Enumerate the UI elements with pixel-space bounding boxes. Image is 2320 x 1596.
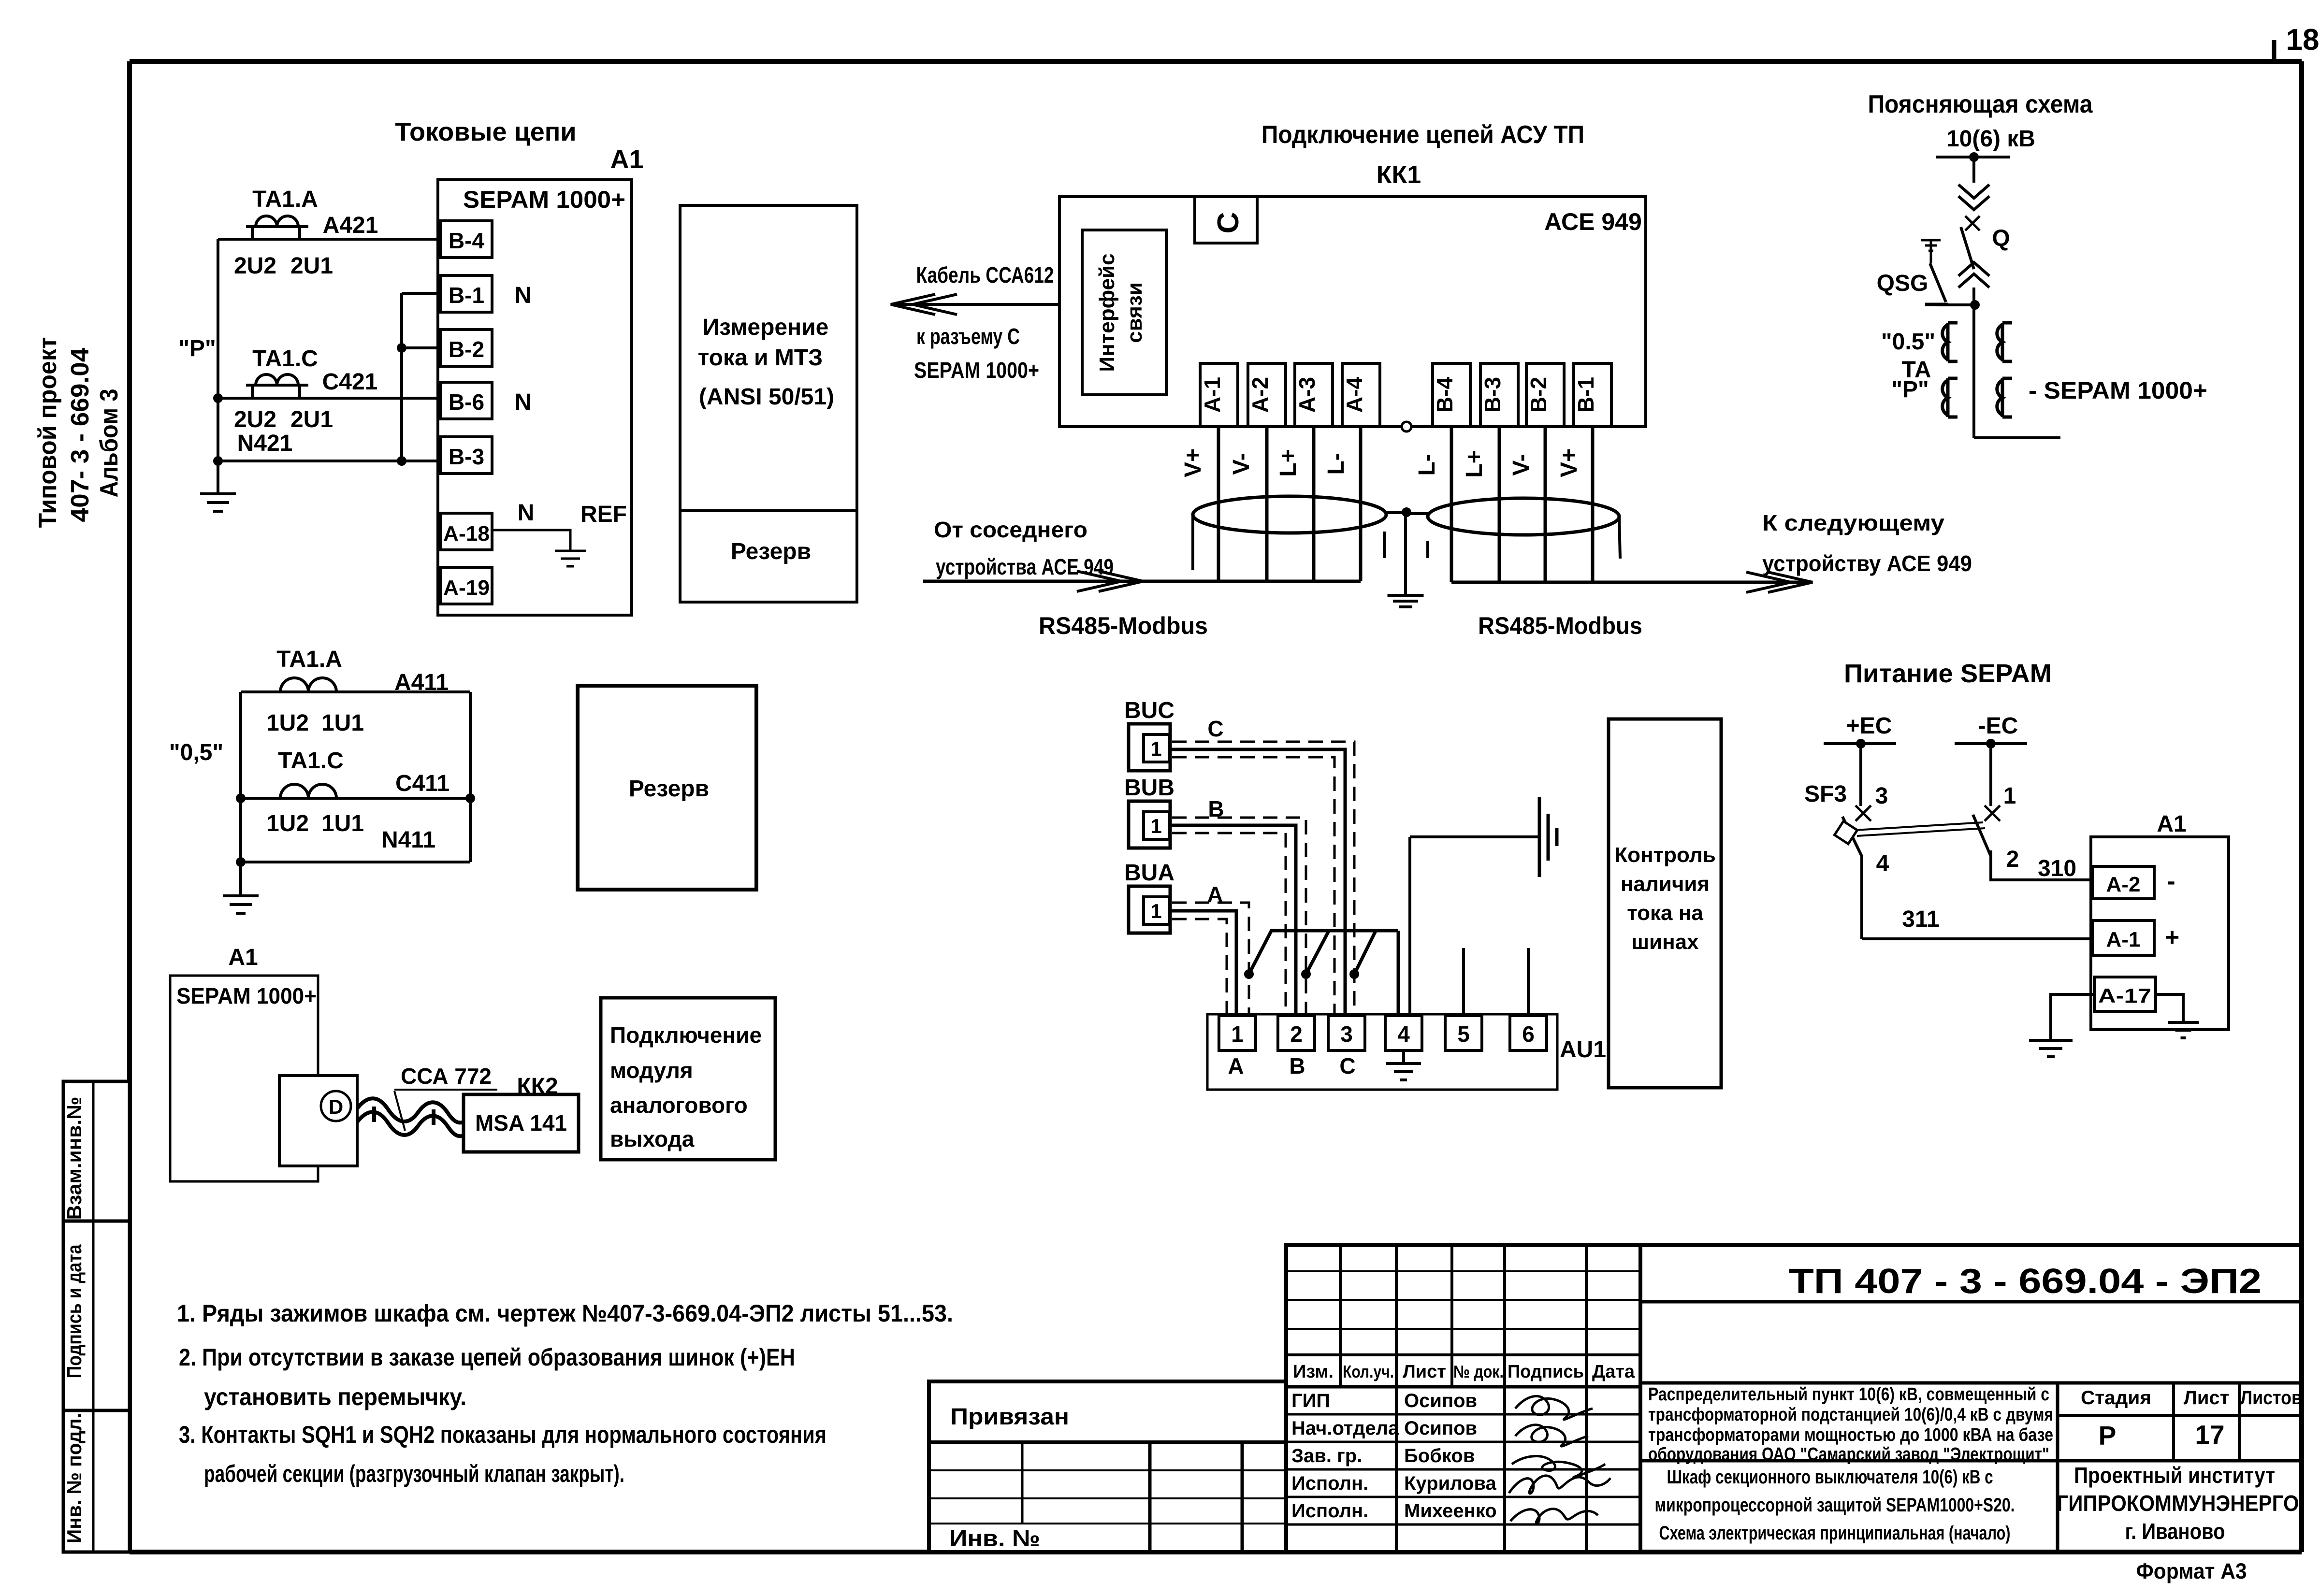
svg-text:V-: V- xyxy=(1508,454,1534,475)
svg-text:Привязан: Привязан xyxy=(950,1404,1069,1430)
svg-text:Подпись и дата: Подпись и дата xyxy=(63,1244,86,1379)
svg-text:(ANSI 50/51): (ANSI 50/51) xyxy=(699,384,834,410)
svg-text:1U1: 1U1 xyxy=(321,710,364,736)
svg-text:MSA 141: MSA 141 xyxy=(475,1110,567,1136)
svg-text:1: 1 xyxy=(2003,783,2016,809)
svg-text:4: 4 xyxy=(1397,1021,1410,1047)
svg-text:Подпись: Подпись xyxy=(1508,1362,1584,1382)
svg-text:устройства АСЕ 949: устройства АСЕ 949 xyxy=(936,554,1114,579)
svg-text:установить перемычку.: установить перемычку. xyxy=(204,1383,466,1410)
svg-text:2U2: 2U2 xyxy=(234,407,276,432)
svg-text:Осипов: Осипов xyxy=(1404,1390,1477,1411)
svg-text:3: 3 xyxy=(1875,783,1888,809)
svg-text:Изм.: Изм. xyxy=(1293,1362,1334,1382)
svg-text:С: С xyxy=(1207,716,1223,741)
svg-text:А-2: А-2 xyxy=(1247,377,1273,413)
svg-text:-ЕС: -ЕС xyxy=(1978,713,2018,739)
svg-text:AU1: AU1 xyxy=(1560,1037,1606,1063)
svg-text:В-4: В-4 xyxy=(1432,377,1457,413)
svg-text:Шкаф секционного выключателя 1: Шкаф секционного выключателя 10(6) кВ с xyxy=(1667,1467,1993,1488)
svg-text:N: N xyxy=(515,283,532,308)
svg-text:С: С xyxy=(1212,212,1245,234)
svg-text:ТП 407 - 3 - 669.04 - ЭП2: ТП 407 - 3 - 669.04 - ЭП2 xyxy=(1789,1262,2262,1301)
svg-text:тока на: тока на xyxy=(1627,901,1703,925)
svg-text:Исполн.: Исполн. xyxy=(1291,1500,1368,1522)
svg-text:Подключение цепей АСУ ТП: Подключение цепей АСУ ТП xyxy=(1261,121,1584,149)
svg-text:310: 310 xyxy=(2038,856,2076,881)
svg-text:Токовые цепи: Токовые цепи xyxy=(395,117,576,146)
svg-text:шинах: шинах xyxy=(1631,930,1699,954)
svg-text:"0.5": "0.5" xyxy=(1881,329,1935,355)
svg-text:Подключение: Подключение xyxy=(610,1022,762,1048)
svg-text:1U2: 1U2 xyxy=(266,710,309,736)
svg-text:Распределительный пункт 10(6): Распределительный пункт 10(6) кВ, совмещ… xyxy=(1648,1384,2049,1405)
svg-text:ТА1.С: ТА1.С xyxy=(252,346,318,372)
svg-text:1: 1 xyxy=(1150,900,1161,922)
svg-text:Михеенко: Михеенко xyxy=(1404,1500,1497,1522)
svg-text:Лист: Лист xyxy=(2184,1387,2230,1409)
svg-text:1U1: 1U1 xyxy=(321,811,364,836)
svg-text:В-3: В-3 xyxy=(1480,377,1505,413)
svg-text:1: 1 xyxy=(1231,1021,1244,1047)
svg-text:"Р": "Р" xyxy=(178,336,216,361)
svg-text:Нач.отдела: Нач.отдела xyxy=(1291,1418,1399,1439)
svg-text:ТА1.С: ТА1.С xyxy=(278,748,344,774)
svg-text:Взам.инв.№: Взам.инв.№ xyxy=(63,1097,86,1220)
svg-text:Схема электрическая принципиал: Схема электрическая принципиальная (нача… xyxy=(1659,1523,2011,1544)
svg-text:"Р": "Р" xyxy=(1891,377,1929,403)
svg-text:-: - xyxy=(2167,867,2175,895)
svg-text:С421: С421 xyxy=(322,369,378,395)
svg-text:А411: А411 xyxy=(394,670,449,695)
svg-text:Проектный институт: Проектный институт xyxy=(2074,1463,2275,1488)
svg-text:тока и МТЗ: тока и МТЗ xyxy=(698,345,823,371)
svg-text:В-4: В-4 xyxy=(449,228,485,253)
svg-text:С: С xyxy=(1339,1053,1355,1078)
svg-text:Инв. № подл.: Инв. № подл. xyxy=(63,1413,86,1543)
svg-text:Зав. гр.: Зав. гр. xyxy=(1291,1445,1362,1467)
svg-text:Листов: Листов xyxy=(2240,1387,2302,1409)
svg-text:2. При отсутствии в заказе цеп: 2. При отсутствии в заказе цепей образов… xyxy=(179,1344,795,1371)
svg-text:BUA: BUA xyxy=(1124,860,1174,886)
svg-text:- SEPAM 1000+: - SEPAM 1000+ xyxy=(2029,377,2207,404)
svg-text:BUC: BUC xyxy=(1124,698,1174,723)
svg-text:ГИП: ГИП xyxy=(1291,1390,1330,1411)
svg-text:КК1: КК1 xyxy=(1377,161,1421,189)
svg-text:оборудования ОАО "Самарский за: оборудования ОАО "Самарский завод "Элект… xyxy=(1648,1444,2049,1465)
svg-text:1. Ряды зажимов шкафа см. чер: 1. Ряды зажимов шкафа см. чертеж №407-3-… xyxy=(177,1300,953,1327)
svg-text:Альбом 3: Альбом 3 xyxy=(95,389,123,498)
svg-text:А1: А1 xyxy=(228,945,258,970)
svg-text:Осипов: Осипов xyxy=(1404,1418,1477,1439)
svg-text:BUB: BUB xyxy=(1124,775,1174,801)
svg-text:Измерение: Измерение xyxy=(703,315,829,340)
svg-text:Питание SEPAM: Питание SEPAM xyxy=(1844,659,2052,688)
svg-text:+ЕС: +ЕС xyxy=(1846,713,1892,739)
svg-text:3: 3 xyxy=(1340,1021,1353,1047)
svg-text:2U1: 2U1 xyxy=(290,407,333,432)
svg-text:SEPAM 1000+: SEPAM 1000+ xyxy=(463,186,625,213)
svg-text:А-3: А-3 xyxy=(1294,377,1319,413)
svg-text:№ док.: № док. xyxy=(1453,1362,1504,1381)
svg-text:трансформаторной подстанцией 1: трансформаторной подстанцией 10(6)/0,4 к… xyxy=(1648,1405,2053,1425)
svg-text:Поясняющая схема: Поясняющая схема xyxy=(1868,90,2093,118)
svg-text:5: 5 xyxy=(1457,1021,1470,1047)
svg-text:В-1: В-1 xyxy=(449,283,484,308)
svg-text:А-1: А-1 xyxy=(1200,377,1225,413)
svg-text:L+: L+ xyxy=(1462,450,1487,477)
svg-text:А-17: А-17 xyxy=(2098,984,2151,1007)
svg-text:ТА1.А: ТА1.А xyxy=(252,187,318,212)
svg-text:трансформаторами мощностью до: трансформаторами мощностью до 1000 кВА н… xyxy=(1648,1425,2053,1445)
svg-text:407- 3 - 669.04: 407- 3 - 669.04 xyxy=(66,347,94,522)
svg-text:А-4: А-4 xyxy=(1342,377,1367,413)
svg-text:ТА1.А: ТА1.А xyxy=(276,647,342,672)
svg-text:1: 1 xyxy=(1150,737,1161,760)
svg-text:От соседнего: От соседнего xyxy=(934,517,1087,542)
svg-text:В-2: В-2 xyxy=(1526,377,1551,413)
svg-text:В: В xyxy=(1289,1053,1305,1078)
svg-text:Типовой проект: Типовой проект xyxy=(34,337,62,528)
svg-text:SEPAM 1000+: SEPAM 1000+ xyxy=(176,983,317,1008)
svg-text:N411: N411 xyxy=(381,827,435,853)
svg-text:V+: V+ xyxy=(1556,448,1582,477)
svg-text:Q: Q xyxy=(1992,226,2010,251)
svg-text:SF3: SF3 xyxy=(1804,781,1847,807)
svg-text:L-: L- xyxy=(1323,453,1349,474)
svg-text:В-1: В-1 xyxy=(1573,377,1598,413)
svg-text:А421: А421 xyxy=(323,213,378,238)
svg-text:выхода: выхода xyxy=(610,1126,695,1151)
svg-text:к разъему С: к разъему С xyxy=(916,324,1020,349)
svg-text:18: 18 xyxy=(2286,23,2320,57)
svg-text:Р: Р xyxy=(2099,1421,2117,1451)
svg-text:L-: L- xyxy=(1414,454,1440,475)
svg-text:Резерв: Резерв xyxy=(629,776,709,802)
svg-text:Лист: Лист xyxy=(1403,1362,1446,1382)
svg-text:Бобков: Бобков xyxy=(1404,1445,1475,1467)
svg-text:N: N xyxy=(518,500,535,526)
svg-text:2: 2 xyxy=(1290,1021,1303,1047)
svg-text:V+: V+ xyxy=(1180,448,1206,477)
svg-text:N: N xyxy=(515,389,532,415)
svg-text:"0,5": "0,5" xyxy=(169,740,223,765)
svg-text:Формат А3: Формат А3 xyxy=(2136,1559,2247,1583)
svg-text:Инв. №: Инв. № xyxy=(949,1526,1040,1552)
svg-text:Кабель ССА612: Кабель ССА612 xyxy=(916,262,1054,288)
svg-text:В-6: В-6 xyxy=(449,389,484,415)
svg-text:А: А xyxy=(1228,1053,1244,1078)
svg-text:Резерв: Резерв xyxy=(731,539,811,564)
svg-text:4: 4 xyxy=(1876,851,1889,877)
svg-text:D: D xyxy=(329,1095,343,1118)
svg-text:N421: N421 xyxy=(237,431,293,456)
svg-text:QSG: QSG xyxy=(1877,271,1928,296)
svg-text:К следующему: К следующему xyxy=(1762,510,1944,535)
svg-text:А-1: А-1 xyxy=(2106,928,2141,951)
svg-text:Интерфейс: Интерфейс xyxy=(1095,253,1119,372)
svg-text:REF: REF xyxy=(580,502,627,527)
svg-text:Стадия: Стадия xyxy=(2081,1387,2151,1409)
svg-text:SEPAM 1000+: SEPAM 1000+ xyxy=(914,358,1039,383)
svg-text:А-18: А-18 xyxy=(443,522,490,546)
svg-text:L+: L+ xyxy=(1276,449,1301,476)
svg-text:В-3: В-3 xyxy=(449,444,484,469)
svg-text:ГИПРОКОММУНЭНЕРГО: ГИПРОКОММУНЭНЕРГО xyxy=(2057,1491,2299,1516)
svg-text:наличия: наличия xyxy=(1621,872,1710,896)
svg-text:6: 6 xyxy=(1522,1021,1535,1047)
svg-text:А-2: А-2 xyxy=(2106,873,2141,896)
svg-text:С411: С411 xyxy=(395,771,449,796)
svg-text:311: 311 xyxy=(1902,906,1939,932)
svg-text:АСЕ 949: АСЕ 949 xyxy=(1544,208,1642,235)
svg-text:устройству АСЕ 949: устройству АСЕ 949 xyxy=(1762,551,1972,576)
svg-text:Контроль: Контроль xyxy=(1614,843,1716,867)
svg-text:+: + xyxy=(2165,923,2179,951)
svg-text:2: 2 xyxy=(2006,847,2019,872)
svg-text:2U1: 2U1 xyxy=(290,253,333,279)
svg-text:V-: V- xyxy=(1229,453,1254,474)
svg-text:17: 17 xyxy=(2195,1420,2224,1450)
svg-text:микропроцессорной защитой SEPA: микропроцессорной защитой SEPAM1000+S20. xyxy=(1655,1495,2015,1516)
svg-text:2U2: 2U2 xyxy=(234,253,276,279)
svg-text:1: 1 xyxy=(1150,815,1161,837)
svg-text:В-2: В-2 xyxy=(449,337,484,362)
svg-text:модуля: модуля xyxy=(610,1058,693,1083)
svg-text:RS485-Modbus: RS485-Modbus xyxy=(1478,612,1642,639)
svg-text:ССА 772: ССА 772 xyxy=(401,1064,492,1089)
svg-text:3. Контакты SQH1 и SQH2 показа: 3. Контакты SQH1 и SQH2 показаны для нор… xyxy=(179,1421,826,1448)
svg-text:А1: А1 xyxy=(610,145,643,174)
svg-text:1U2: 1U2 xyxy=(266,811,309,836)
svg-text:Дата: Дата xyxy=(1592,1362,1635,1382)
svg-text:связи: связи xyxy=(1123,282,1146,343)
svg-text:г. Иваново: г. Иваново xyxy=(2125,1519,2225,1544)
svg-text:RS485-Modbus: RS485-Modbus xyxy=(1039,612,1208,639)
svg-text:Курилова: Курилова xyxy=(1404,1473,1497,1494)
svg-text:Исполн.: Исполн. xyxy=(1291,1473,1368,1494)
svg-text:10(6) кВ: 10(6) кВ xyxy=(1946,126,2035,152)
svg-text:рабочей секции (разгрузочный к: рабочей секции (разгрузочный клапан закр… xyxy=(204,1460,624,1487)
svg-text:А-19: А-19 xyxy=(443,576,490,600)
svg-text:А1: А1 xyxy=(2157,811,2186,837)
svg-text:аналогового: аналогового xyxy=(610,1093,748,1118)
svg-text:Кол.уч.: Кол.уч. xyxy=(1343,1362,1394,1381)
